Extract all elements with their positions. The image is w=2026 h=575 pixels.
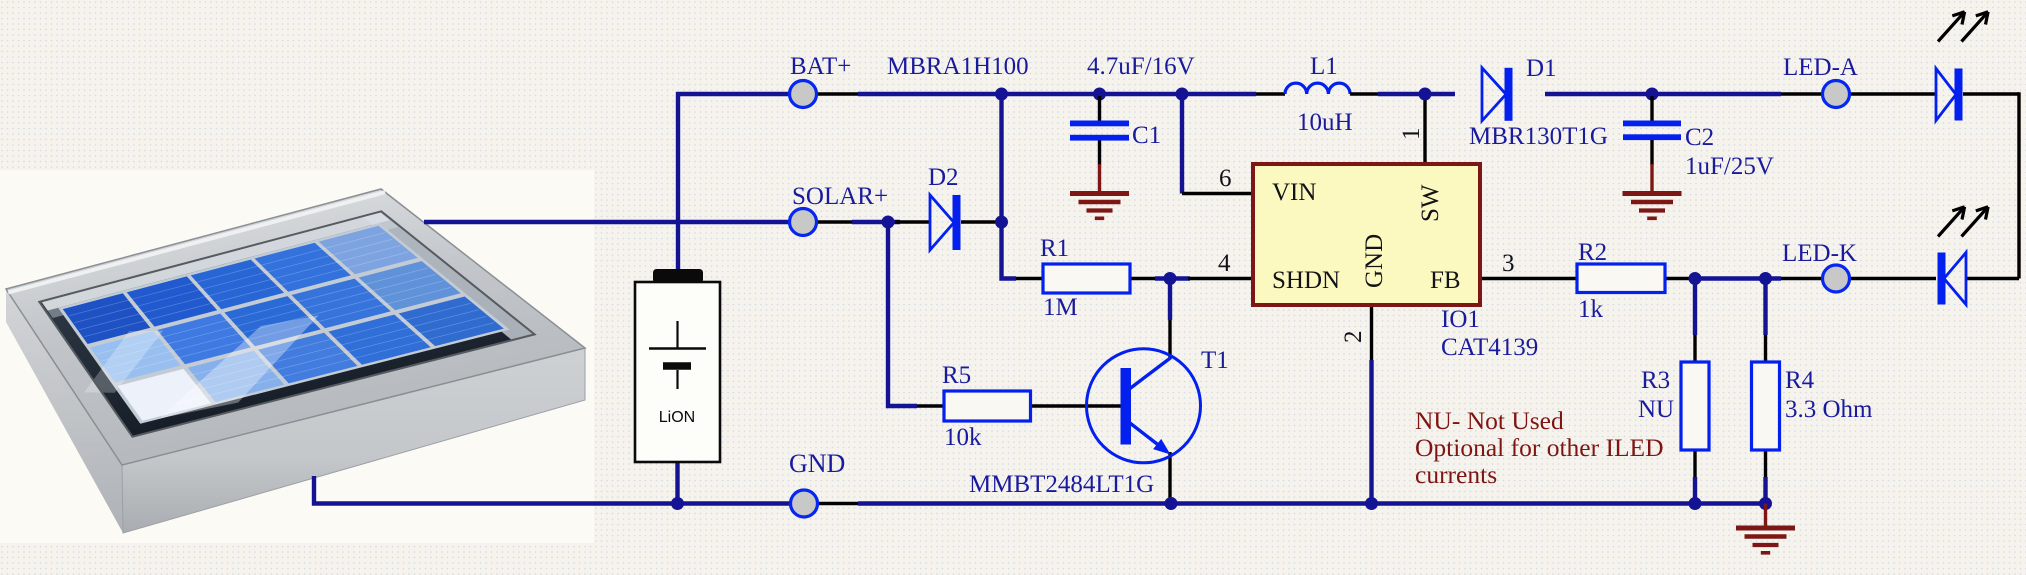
wire GND pin 2 [1370,305,1373,360]
wire BAT+ port stub [817,92,858,95]
node FB/R4 [1759,272,1772,285]
wire T1 emitter pin [1168,452,1171,504]
LED1 emission arrows [1938,12,1988,42]
svg-text:IO1: IO1 [1441,306,1480,333]
wire to R4 top [1763,279,1767,336]
port LED-K [1823,265,1850,292]
node SW/L1/D1 [1419,88,1432,101]
ground under C2 [1623,194,1682,219]
node C1 top [1093,88,1106,101]
wire D2 cathode pin [961,220,1003,223]
svg-text:LED-K: LED-K [1782,240,1857,267]
svg-text:10uH: 10uH [1297,109,1353,136]
node emitter gnd [1165,497,1178,510]
op-amp U1 IC IO1 CAT4139 [1253,164,1480,305]
port BAT+ [790,81,817,108]
svg-text:CAT4139: CAT4139 [1441,334,1538,361]
wire FB pin 3 to R2 [1480,277,1577,280]
wire LED-A to LED1 [1849,92,1936,95]
wire R5 to T1 base [1031,404,1122,407]
wire panel to GND port [314,476,790,504]
svg-text:D1: D1 [1526,55,1557,82]
node R4 gnd [1759,497,1772,510]
solar panel photo [0,170,594,543]
svg-text:NU- Not Used: NU- Not Used [1415,406,1564,435]
svg-text:10k: 10k [944,424,982,451]
node C2 top [1646,88,1659,101]
capacitor C1 [1070,96,1129,192]
wire R3 bottom pin [1693,450,1696,477]
wire VIN pin 6 [1182,192,1253,195]
svg-text:C2: C2 [1685,124,1714,151]
wire GND pin 2 to ground net [1369,360,1373,504]
ground bottom right [1736,528,1795,553]
wire to VIN pin [1180,94,1184,194]
svg-text:VIN: VIN [1272,179,1316,206]
wire right edge vertical [2017,92,2020,278]
wire R3 to ground net [1693,477,1697,504]
svg-text:BAT+: BAT+ [790,53,851,80]
wire BAT net vertical to R1 [1002,94,1017,279]
battery LiON [635,269,720,462]
wire D1 to LED-A [1545,92,1781,96]
wire R2 right pin [1665,277,1695,280]
svg-text:C1: C1 [1132,122,1161,149]
wire L1 to D1 [1378,92,1455,96]
wire R4 top pin [1764,335,1767,362]
ground under C1 [1070,194,1129,219]
svg-text:currents: currents [1415,460,1497,489]
node SOLAR/R5 [882,216,895,229]
resistor R4 [1752,362,1780,450]
LED diode top [1936,69,1963,121]
wire ground tail [1764,504,1767,528]
svg-text:3: 3 [1502,250,1515,277]
LED diode bottom [1938,253,1967,305]
svg-text:D2: D2 [928,164,959,191]
transistor T1 [1087,349,1201,463]
svg-text:R4: R4 [1785,367,1815,394]
resistor R5 [944,391,1031,421]
inductor L1 [1256,83,1378,94]
svg-text:FB: FB [1430,267,1461,294]
wire R5 left pin [917,404,944,407]
svg-text:R1: R1 [1040,235,1069,262]
port LED-A [1823,81,1850,108]
node D2 out [995,216,1008,229]
node battery gnd [671,497,684,510]
svg-text:SOLAR+: SOLAR+ [792,183,888,210]
svg-text:T1: T1 [1201,347,1229,374]
wire top net BAT+ to L1 [858,92,1256,96]
wire R1 left pin [1016,277,1043,280]
svg-text:4: 4 [1218,250,1231,277]
svg-text:GND: GND [1361,234,1388,288]
svg-text:MBRA1H100: MBRA1H100 [887,53,1029,80]
wire LED-A stub left [1781,92,1822,95]
node R3 gnd [1689,497,1702,510]
diode D2 [930,195,961,250]
svg-text:R2: R2 [1578,239,1607,266]
port SOLAR+ [790,209,817,236]
LED2 emission arrows [1938,207,1988,237]
svg-text:MBR130T1G: MBR130T1G [1469,123,1608,150]
wire R2 node to LED-K [1695,276,1781,280]
wire BAT+ vertical/horizontal [678,94,790,269]
svg-text:L1: L1 [1310,53,1338,80]
wire SOLAR+ port stub [817,220,852,223]
resistor R3 [1681,362,1709,450]
svg-text:SW: SW [1417,184,1444,222]
svg-text:LED-A: LED-A [1783,54,1858,81]
svg-text:SHDN: SHDN [1272,267,1340,294]
svg-text:NU: NU [1638,396,1674,423]
wire LED1 to right edge [1963,92,2019,95]
wire to R3 top [1693,279,1697,336]
svg-text:1M: 1M [1043,294,1078,321]
capacitor C2 [1623,96,1681,192]
svg-text:MMBT2484LT1G: MMBT2484LT1G [969,471,1154,498]
svg-text:4.7uF/16V: 4.7uF/16V [1087,53,1195,80]
svg-text:Optional for other ILED: Optional for other ILED [1415,433,1664,462]
wire SOLAR+ to node [852,220,900,224]
wire LED-K to LED2 [1849,277,1936,280]
svg-text:6: 6 [1219,165,1232,192]
diode D1 [1482,68,1513,121]
wire right edge to LED2 [1966,277,2019,280]
svg-text:1: 1 [1398,128,1425,141]
node IC gnd [1365,497,1378,510]
wire SHDN node down [1168,279,1172,321]
svg-text:LiON: LiON [659,409,695,426]
port GND [791,490,818,517]
wire solar panel to SOLAR+ [424,220,790,224]
wire D2 anode pin [895,220,930,223]
wire LED-K stub left [1781,277,1822,280]
svg-text:2: 2 [1340,331,1367,344]
svg-text:3.3 Ohm: 3.3 Ohm [1785,396,1873,423]
wire R1 right pin [1130,277,1155,280]
wire R3 top pin [1693,335,1696,362]
wire R4 to ground net [1763,477,1767,504]
wire SW pin 1 [1423,94,1426,164]
svg-text:R5: R5 [942,362,971,389]
wire R1 to SHDN node [1155,276,1190,280]
node SHDN/R1/T1 [1164,272,1177,285]
wire battery negative pin [675,462,679,504]
wire SOLAR+ down to R5 [888,222,917,406]
wire SHDN pin 4 [1188,277,1253,280]
svg-text:1uF/25V: 1uF/25V [1685,153,1774,180]
node BAT/D2 [995,88,1008,101]
node VIN [1176,88,1189,101]
wire R4 bottom pin [1764,450,1767,477]
node FB/R3 [1689,272,1702,285]
resistor R2 [1577,264,1665,293]
wire ground net bottom [858,501,1766,505]
svg-text:GND: GND [789,449,845,478]
svg-text:R3: R3 [1641,367,1670,394]
resistor R1 [1043,264,1130,293]
svg-text:1k: 1k [1578,296,1604,323]
wire GND port stub [818,502,858,505]
wire T1 collector pin [1168,320,1171,358]
